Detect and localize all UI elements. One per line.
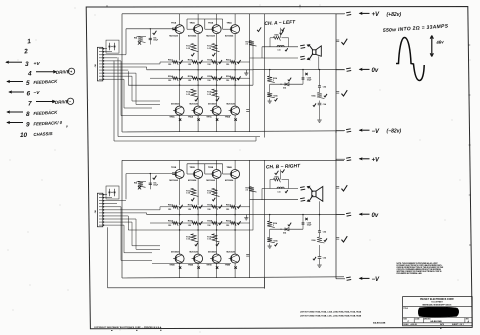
wire: output line channel A	[262, 46, 298, 48]
arrow −V channel B	[360, 277, 370, 279]
svg-text:+V: +V	[34, 61, 41, 67]
wire: channel A output-section outer vertical	[264, 14, 266, 138]
svg-text:2.2: 2.2	[246, 190, 249, 192]
ground below R23B	[269, 244, 271, 246]
connector J1B (10-pin)	[97, 193, 102, 227]
title block divider	[403, 306, 473, 308]
svg-text:TR3B: TR3B	[208, 167, 214, 169]
wire: output line channel B	[262, 188, 298, 190]
bus check mark 3	[336, 186, 339, 188]
pin 6 -V arrow	[9, 91, 24, 93]
svg-text:−V: −V	[372, 129, 381, 135]
46V peak arrow	[431, 36, 433, 57]
X mark under Q7A	[216, 118, 218, 120]
svg-text:150: 150	[168, 80, 171, 82]
wire: channel B +V top rail	[122, 159, 344, 161]
svg-text:0.15: 0.15	[207, 239, 211, 241]
svg-text:150: 150	[207, 225, 210, 227]
capacitor C24A	[302, 70, 304, 85]
svg-text:MJ15024: MJ15024	[206, 34, 215, 37]
resistor R5B (deleted, X-ed out)	[137, 180, 147, 182]
svg-text:SIZE: SIZE	[403, 319, 406, 321]
svg-text:CHASSIS: CHASSIS	[33, 131, 52, 137]
capacitor C9A	[319, 101, 321, 103]
bus check mark 4	[336, 237, 339, 239]
resistor R3A 0.15 emitter (bottom)	[191, 89, 199, 97]
wire: tap above loop channel B	[280, 170, 282, 180]
arrow +V channel A	[360, 12, 370, 14]
wire: vertical x253 channel A	[252, 44, 254, 85]
svg-text:MJ15024: MJ15024	[169, 179, 178, 182]
svg-text:MJ15025: MJ15025	[227, 104, 236, 106]
pin 8 feedback arrow	[7, 111, 23, 113]
transistor Q6B (output PNP)	[194, 254, 203, 263]
wire: channel B output-section outer vertical	[264, 160, 266, 288]
wire: channel A bottom base bus	[152, 115, 231, 117]
transistor Q8B (output PNP)	[231, 254, 240, 263]
terminal +V channel B	[336, 158, 345, 160]
wire: speaker to 0v channel A	[318, 56, 320, 69]
svg-text:+V: +V	[372, 157, 381, 163]
svg-text:MJ15025: MJ15025	[208, 252, 217, 254]
resistor R21B clump at block B right edge	[249, 187, 257, 193]
resistor R1B 0.15 emitter (top)	[191, 188, 199, 196]
wire: channel A lower mid rail	[128, 84, 253, 86]
transistor Q1A (output NPN)	[175, 25, 184, 34]
resistor R3B 0.15 emitter (bottom)	[191, 234, 199, 242]
ground below C9A	[319, 105, 321, 119]
svg-text:LIST NOT USED: R15A, R16A, L18: LIST NOT USED: R15A, R16A, L18A, L18B, R…	[300, 310, 362, 313]
ground: channel B mid-rail ground	[245, 215, 247, 218]
svg-text:TR7B: TR7B	[206, 265, 212, 267]
wire: column 180 channel B	[179, 207, 181, 254]
resistor R5A (deleted, X-ed out)	[137, 36, 147, 38]
svg-text:0.15: 0.15	[207, 193, 211, 195]
svg-text:+V: +V	[372, 12, 381, 18]
wire: channel B bottom base bus	[152, 263, 231, 265]
resistor R1A 0.15 emitter (top)	[191, 44, 199, 52]
wire: channel A +V top rail	[122, 13, 344, 15]
ground: channel A mid-rail ground	[245, 70, 247, 73]
wire: channel A block right edge	[249, 14, 251, 132]
capacitor C24B	[302, 215, 304, 230]
wire: channel B 0v mid rail	[147, 214, 253, 216]
svg-text:REV: REV	[466, 319, 469, 321]
output terminals channel B	[300, 186, 305, 189]
wire: column 235 channel B	[234, 207, 236, 254]
terminal +V channel A	[336, 13, 345, 15]
svg-text:MJ15025: MJ15025	[208, 104, 217, 106]
resistor R21A clump at block A right edge	[249, 41, 257, 47]
resistor R30B	[319, 233, 321, 237]
top frame tick	[106, 5, 108, 7]
resistor R2A 0.15 emitter (top)	[212, 44, 220, 52]
transistor Q5B (output PNP)	[175, 254, 184, 263]
speaker channel B	[312, 191, 316, 197]
redacted title (black box)	[418, 307, 458, 317]
drawing border frame	[86, 7, 472, 329]
wire: speaker to 0v channel B	[319, 201, 321, 214]
svg-text:TR4B: TR4B	[227, 166, 233, 169]
svg-text:2.2: 2.2	[246, 44, 249, 46]
svg-text:SHEET 1 OF 1: SHEET 1 OF 1	[452, 324, 464, 326]
svg-text:MJ15024: MJ15024	[188, 34, 197, 37]
wire: channel B lower mid rail	[128, 229, 253, 231]
svg-text:CH. B − RIGHT: CH. B − RIGHT	[266, 163, 301, 170]
wire: tap above loop channel A	[280, 28, 282, 38]
svg-text:100pF: 100pF	[307, 80, 312, 82]
title block frame	[403, 297, 473, 326]
transistor Q1B (output NPN)	[175, 170, 184, 179]
X mark under Q5B	[179, 266, 181, 268]
resistor R30A	[319, 88, 321, 93]
svg-text:6: 6	[27, 91, 31, 98]
svg-text:150: 150	[226, 209, 229, 211]
X mark under Q5A	[179, 118, 181, 120]
wire: column 198 channel A	[197, 62, 199, 106]
svg-text:0.15: 0.15	[207, 94, 211, 96]
wire: channel A 0v mid rail	[147, 69, 253, 71]
wire: channel A extra bottom routing	[114, 140, 256, 142]
resistor R4B 0.15 emitter (bottom)	[212, 234, 220, 242]
svg-text:CODE: CODE	[415, 319, 419, 321]
svg-text:150: 150	[207, 80, 210, 82]
capacitor C8A	[319, 70, 321, 86]
transistor Q4A (output NPN)	[231, 25, 240, 34]
wire: channel A lower routing line	[118, 136, 260, 138]
svg-text:150: 150	[207, 209, 210, 211]
bus check mark 2	[336, 91, 339, 93]
arrow 0v channel A	[360, 68, 370, 70]
svg-text:MJ15024: MJ15024	[169, 34, 178, 37]
svg-text:0.15: 0.15	[186, 239, 190, 241]
wire: channel B block bottom (-V rail)	[122, 277, 344, 278]
svg-text:5: 5	[273, 80, 274, 82]
svg-text:MJ15024: MJ15024	[225, 34, 234, 37]
resistor R23A to ground	[269, 84, 271, 92]
svg-text:COPYRIGHT 1985 PEAVEY ELECTRON: COPYRIGHT 1985 PEAVEY ELECTRONICS CORP. …	[94, 326, 162, 329]
svg-text:150: 150	[207, 64, 210, 66]
svg-text:5: 5	[26, 80, 30, 87]
inductor L1B	[277, 187, 284, 188]
svg-text:100pF: 100pF	[153, 184, 158, 186]
wire: channel A row2 line	[150, 77, 250, 79]
wire: channel B row2 line	[150, 222, 250, 224]
svg-text:−V: −V	[372, 277, 381, 283]
wire: channel B block right edge	[249, 160, 251, 278]
svg-text:TR3A: TR3A	[208, 21, 214, 24]
wire: second output line channel A	[250, 57, 298, 59]
svg-text:0v: 0v	[372, 213, 379, 219]
svg-text:LIST NOT USED: R15B, R16B, L18: LIST NOT USED: R15B, R16B, L18C, L18D, R…	[300, 315, 362, 317]
resistor R22B	[269, 215, 271, 221]
transistor Q4B (output NPN)	[231, 170, 240, 179]
ground below R23A	[269, 99, 271, 101]
X mark under Q8A	[234, 118, 236, 120]
wire: column 198 channel B	[197, 207, 199, 254]
wire: +V(B) tap from rail	[335, 159, 337, 160]
transistor Q6A (output PNP)	[194, 106, 203, 115]
svg-text:711 A STREET: 711 A STREET	[431, 301, 443, 304]
svg-text:MJ15024: MJ15024	[206, 179, 215, 182]
wire: bottom routing corner	[264, 278, 266, 288]
transistor Q7A (output PNP)	[212, 106, 221, 115]
svg-text:150: 150	[188, 209, 191, 211]
right frame ticks	[468, 44, 470, 46]
svg-text:MERIDIAN, MISSISSIPPI 39301: MERIDIAN, MISSISSIPPI 39301	[422, 304, 452, 307]
capacitor C8B	[319, 215, 321, 231]
hand-drawn sine wave	[396, 38, 424, 81]
svg-text:(−82v): (−82v)	[387, 129, 402, 135]
wire: column 235 channel A	[234, 62, 236, 106]
resistor R4A 0.15 emitter (bottom)	[212, 89, 220, 97]
svg-text:4-29-85: 4-29-85	[411, 323, 417, 326]
transistor Q5A (output PNP)	[175, 106, 184, 115]
wire: channel B base feed	[126, 173, 173, 175]
inductor L1A	[277, 45, 284, 46]
wire: channel A block bottom (-V rail)	[122, 131, 344, 132]
wire: 0v line to terminal channel B	[253, 214, 344, 216]
pin 9 feedback/0v arrow	[7, 122, 23, 124]
check mark near C1B	[153, 176, 157, 180]
svg-text:TR5A: TR5A	[169, 116, 175, 119]
terminal 0v channel A	[336, 69, 345, 71]
wire fan from J1B	[103, 194, 107, 196]
terminal −V channel A	[336, 130, 345, 132]
wire: channel B row1 line	[160, 206, 250, 208]
capacitor pair above J1A	[106, 40, 119, 53]
output terminals channel A	[300, 44, 305, 47]
wire: channel A base feed	[126, 28, 173, 30]
svg-text:150: 150	[188, 80, 191, 82]
pin 5 feedback arrow	[7, 81, 23, 83]
resistor R40B damping (parallel loop)	[270, 180, 289, 189]
connector J1A (10-pin)	[97, 47, 102, 81]
title block bottom row	[403, 322, 473, 324]
svg-text:TR1B: TR1B	[171, 167, 177, 169]
svg-text:PEAVEY ELECTRONICS CORP.: PEAVEY ELECTRONICS CORP.	[420, 298, 454, 301]
wire: column 180 channel A	[179, 62, 181, 106]
svg-text:TR5B: TR5B	[169, 265, 175, 267]
terminal 0v channel B	[336, 214, 345, 216]
transistor Q3A (output NPN)	[212, 25, 221, 34]
capacitor pair above J1B	[106, 186, 119, 199]
svg-text:TR2A: TR2A	[190, 21, 196, 24]
svg-text:PROHIBITED BY FEDERAL LAW.: PROHIBITED BY FEDERAL LAW.	[397, 272, 423, 275]
svg-text:150: 150	[188, 64, 191, 66]
svg-text:TR1A: TR1A	[171, 21, 177, 24]
svg-text:TR4A: TR4A	[227, 21, 233, 24]
wire: column 217 channel A	[216, 62, 218, 106]
svg-text:−: −	[69, 100, 71, 104]
svg-text:9: 9	[26, 122, 30, 129]
svg-text:TR6A: TR6A	[188, 116, 194, 119]
diode D3B	[285, 228, 289, 231]
svg-text:4: 4	[27, 71, 32, 78]
svg-text:TR6B: TR6B	[188, 265, 194, 267]
svg-text:MJ15025: MJ15025	[171, 104, 180, 106]
check mark near C1A	[153, 31, 157, 35]
resistor R2B 0.15 emitter (top)	[212, 188, 220, 196]
transistor Q8A (output PNP)	[231, 106, 240, 115]
svg-text:10: 10	[20, 132, 28, 139]
title block lower divider	[403, 317, 473, 319]
wire: main right vertical bus	[335, 14, 337, 279]
scan speckles	[9, 159, 10, 160]
speaker arrows channel B	[308, 187, 313, 192]
svg-text:0.15: 0.15	[186, 193, 190, 195]
svg-text:0v: 0v	[372, 68, 379, 74]
svg-text:150: 150	[188, 225, 191, 227]
transistor Q3B (output NPN)	[212, 170, 221, 179]
bus check mark 1	[336, 39, 339, 41]
wire: channel B lower routing line	[108, 287, 265, 289]
wire: feedback line channel A	[270, 83, 303, 85]
svg-text:MJ15025: MJ15025	[171, 252, 180, 254]
transistor Q7B (output PNP)	[212, 254, 221, 263]
speaker arrows channel A	[308, 45, 313, 50]
arrow 0v channel B	[360, 213, 370, 215]
capacitor C1B 100pF	[149, 174, 151, 190]
svg-text:MJ15025: MJ15025	[227, 252, 236, 254]
wire: column 217 channel B	[216, 207, 218, 254]
svg-text:100pF: 100pF	[153, 40, 158, 42]
svg-text:MJ15024: MJ15024	[225, 179, 234, 182]
X mark under Q6B	[197, 266, 199, 268]
arrow −V channel A	[360, 129, 370, 131]
svg-text:150: 150	[168, 209, 171, 211]
transistor Q2B (output NPN)	[194, 170, 203, 179]
wire: channel A block left edge	[121, 14, 123, 132]
wire: -V(A) tap	[335, 131, 337, 133]
wire: channel B top base bus	[187, 163, 223, 165]
X mark under Q6A	[197, 118, 199, 120]
wire: channel A row1 line	[160, 61, 250, 63]
wire: 0v line to terminal channel A	[253, 69, 344, 71]
svg-text:8: 8	[26, 111, 30, 118]
arrow +V channel B	[360, 158, 370, 160]
capacitor C9B	[319, 245, 321, 256]
svg-text:150: 150	[226, 64, 229, 66]
X mark under Q8B	[234, 266, 236, 268]
terminal −V channel B	[336, 278, 345, 280]
X mark under Q7B	[216, 266, 218, 268]
svg-text:64LB6O24B: 64LB6O24B	[373, 322, 386, 325]
svg-text:46v: 46v	[435, 39, 444, 45]
svg-text:150: 150	[168, 225, 171, 227]
svg-text:64LB6O24B: 64LB6O24B	[430, 320, 442, 323]
svg-text:7: 7	[28, 101, 32, 108]
ground below C9B	[319, 259, 321, 265]
svg-text:3: 3	[25, 61, 29, 68]
wire: vertical x253 channel B	[252, 189, 254, 230]
wire: second output line channel B	[250, 199, 298, 201]
svg-text:TR2B: TR2B	[190, 167, 196, 169]
svg-text:TR8B: TR8B	[225, 265, 231, 267]
svg-text:150: 150	[168, 64, 171, 66]
resistor R22A	[269, 70, 271, 76]
pin 3 +V arrow	[6, 61, 22, 63]
svg-text:TR7A: TR7A	[206, 116, 212, 119]
speaker channel A	[312, 50, 316, 55]
wire: channel B block left edge	[121, 160, 123, 278]
diode D3A	[285, 83, 289, 86]
svg-text:TR8A: TR8A	[225, 116, 231, 119]
resistor R40A damping (parallel loop)	[270, 38, 289, 47]
svg-text:100pF: 100pF	[307, 225, 312, 227]
transistor Q2A (output NPN)	[194, 25, 203, 34]
svg-text:MJ15024: MJ15024	[188, 179, 197, 182]
svg-text:TITLE: TITLE	[403, 308, 407, 310]
svg-text:150: 150	[226, 225, 229, 227]
resistor R23B to ground	[269, 229, 271, 237]
svg-text:0.15: 0.15	[207, 48, 211, 50]
svg-text:(+82v): (+82v)	[387, 12, 402, 18]
svg-text:v: v	[66, 125, 68, 129]
capacitor C1A 100pF	[149, 29, 151, 45]
wire: feedback line channel B	[270, 228, 303, 230]
svg-text:5: 5	[273, 225, 274, 227]
svg-text:0.15: 0.15	[186, 94, 190, 96]
svg-text:+: +	[70, 70, 72, 74]
svg-text:150: 150	[226, 80, 229, 82]
svg-text:MJ15025: MJ15025	[190, 104, 199, 106]
svg-text:MJ15025: MJ15025	[190, 252, 199, 254]
svg-text:0.15: 0.15	[186, 48, 190, 50]
wire: channel A top base bus	[187, 18, 223, 20]
svg-text:−V: −V	[34, 90, 41, 95]
wire fan from J1A	[103, 48, 107, 50]
